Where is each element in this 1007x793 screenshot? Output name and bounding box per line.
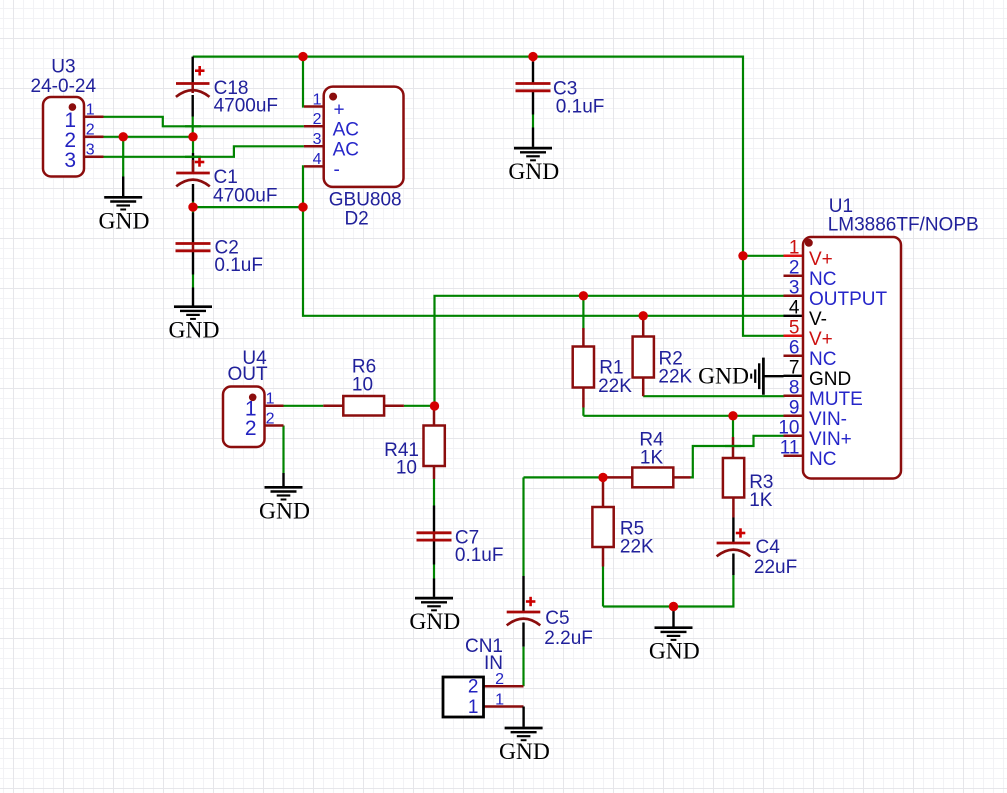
resistor R1 leads bbox=[582, 328, 585, 408]
svg-text:OUTPUT: OUTPUT bbox=[809, 289, 888, 310]
wire bottom ground rail bbox=[603, 575, 733, 607]
svg-text:22K: 22K bbox=[620, 537, 654, 558]
connector U4 pin numbers inside bbox=[245, 398, 257, 441]
junction on top rail at D2 riser bbox=[298, 52, 307, 61]
svg-text:3: 3 bbox=[789, 278, 800, 299]
connector U4 pin numbers outside bbox=[266, 391, 275, 428]
wire D2 pin4 minus down and V- row to U1 pin4 bbox=[303, 166, 785, 315]
svg-text:3: 3 bbox=[86, 142, 95, 159]
resistor R2 leads bbox=[642, 316, 645, 396]
resistor R41 leads bbox=[433, 406, 436, 479]
svg-text:3: 3 bbox=[313, 131, 322, 148]
svg-text:10: 10 bbox=[352, 375, 373, 396]
wire U3 pin2 to C18/C1 junction bbox=[104, 136, 194, 138]
junction C18 bottom / C1 top bbox=[188, 132, 197, 141]
svg-text:C4: C4 bbox=[756, 537, 781, 558]
svg-text:24-0-24: 24-0-24 bbox=[31, 76, 97, 97]
svg-text:V+: V+ bbox=[809, 249, 833, 270]
junction VIN- at R3 top bbox=[728, 411, 737, 420]
wire C1 top link bbox=[192, 137, 194, 153]
junction V+ at U1 pin1 bbox=[738, 251, 747, 260]
svg-text:2: 2 bbox=[789, 258, 800, 279]
svg-text:1: 1 bbox=[266, 391, 275, 408]
svg-text:VIN+: VIN+ bbox=[809, 429, 852, 450]
svg-text:4700uF: 4700uF bbox=[214, 96, 278, 117]
capacitor C5 plus sign bbox=[526, 597, 536, 606]
svg-text:GND: GND bbox=[409, 609, 460, 635]
svg-text:GND: GND bbox=[99, 208, 150, 234]
connector U3 pin numbers outside bbox=[86, 102, 95, 159]
svg-text:8: 8 bbox=[789, 378, 800, 399]
wire crossing over R3 lead bbox=[725, 445, 741, 447]
capacitor C7 plates bbox=[417, 533, 452, 540]
svg-text:GND: GND bbox=[809, 369, 851, 390]
resistor R4 body bbox=[632, 468, 673, 488]
wire C18 bottom link bbox=[192, 116, 194, 137]
wire VIN+ from U1 pin10 to R4 right bbox=[691, 436, 785, 478]
connector CN1 body bbox=[443, 677, 484, 717]
resistor R4 leads bbox=[604, 476, 691, 479]
svg-text:2: 2 bbox=[86, 122, 95, 139]
svg-text:GBU808: GBU808 bbox=[329, 190, 402, 211]
wire U4 pin1 to R6 left bbox=[284, 405, 324, 407]
junction U3 pin2 ground tap bbox=[119, 132, 128, 141]
wire R41 bottom link bbox=[433, 479, 435, 506]
wire R1 bottom link bbox=[582, 408, 584, 416]
bridge rectifier D2 pin1 mark bbox=[329, 93, 337, 101]
wire R6 right to OUTPUT node bbox=[404, 405, 435, 407]
svg-text:1: 1 bbox=[789, 238, 800, 259]
capacitor C5 leads bbox=[522, 576, 524, 647]
resistor R2 body bbox=[633, 337, 654, 378]
svg-text:U3: U3 bbox=[51, 56, 75, 77]
svg-text:C5: C5 bbox=[545, 608, 569, 629]
svg-text:V-: V- bbox=[809, 309, 827, 330]
IC U1 pin names bbox=[809, 249, 888, 470]
svg-text:GND: GND bbox=[649, 639, 700, 665]
svg-text:3: 3 bbox=[64, 149, 76, 172]
ground below CN1 bbox=[499, 707, 550, 766]
svg-text:1: 1 bbox=[468, 697, 479, 718]
wire U4 pin2 ground drop bbox=[282, 426, 284, 474]
bridge rectifier D2 pin stubs bbox=[304, 107, 324, 167]
svg-text:4: 4 bbox=[789, 298, 800, 319]
resistor R5 leads bbox=[602, 477, 605, 566]
svg-text:1K: 1K bbox=[749, 490, 773, 511]
connector U3 body bbox=[43, 97, 84, 177]
svg-text:22K: 22K bbox=[598, 376, 632, 397]
resistor R41 body bbox=[424, 426, 445, 467]
connector U3 pin stubs bbox=[84, 117, 104, 157]
svg-text:4: 4 bbox=[313, 151, 322, 168]
svg-text:GND: GND bbox=[499, 739, 550, 765]
junction R6/R41 output node bbox=[430, 401, 439, 410]
svg-text:2: 2 bbox=[245, 417, 257, 440]
bridge rectifier D2 body bbox=[324, 87, 404, 187]
svg-text:LM3886TF/NOPB: LM3886TF/NOPB bbox=[828, 215, 979, 236]
capacitor C18 plus sign bbox=[195, 66, 205, 76]
wire OUTPUT from U1 pin3 left and down to R6 node bbox=[435, 296, 785, 406]
wire R1 top link bbox=[582, 296, 584, 328]
ground below U4 bbox=[259, 473, 310, 524]
wire U3 pin3 to D2 pin3 bbox=[104, 146, 304, 157]
svg-text:0.1uF: 0.1uF bbox=[214, 255, 263, 276]
svg-text:NC: NC bbox=[809, 269, 836, 290]
ground below C3 bbox=[508, 128, 559, 186]
connector U3 pin1 mark bbox=[69, 103, 77, 111]
capacitor C18 plates bbox=[176, 84, 210, 97]
capacitor C3 leads bbox=[532, 57, 535, 115]
wire C3 bottom link bbox=[532, 115, 534, 128]
IC U1 pin numbers bbox=[778, 238, 800, 459]
svg-text:NC: NC bbox=[809, 349, 836, 370]
wire R3 top link from pin9 node bbox=[732, 416, 734, 437]
capacitor C5 plates bbox=[507, 612, 541, 625]
junction input node at R4/R5 bbox=[598, 473, 607, 482]
connector U4 pin1 mark bbox=[249, 394, 257, 402]
resistor R1 body bbox=[573, 347, 594, 388]
resistor R3 body bbox=[723, 458, 744, 498]
svg-text:GND: GND bbox=[508, 159, 559, 185]
ground below C7 bbox=[409, 579, 460, 636]
wire C5 bottom to CN1 pin2 bbox=[522, 647, 524, 687]
wire MUTE row from R2 bottom to U1 pin8 bbox=[643, 395, 784, 397]
svg-text:OUT: OUT bbox=[227, 364, 268, 385]
capacitor C2 leads bbox=[192, 213, 194, 275]
svg-text:-: - bbox=[334, 159, 340, 180]
svg-text:10: 10 bbox=[396, 458, 417, 479]
junction C1 bottom / C2 top bbox=[188, 202, 197, 211]
IC U1 body bbox=[803, 237, 901, 479]
wire D2 pin1 riser to top rail bbox=[302, 57, 305, 107]
svg-text:0.1uF: 0.1uF bbox=[556, 97, 605, 118]
svg-text:MUTE: MUTE bbox=[809, 389, 863, 410]
svg-text:D2: D2 bbox=[344, 208, 368, 229]
connector U4 pin stubs bbox=[265, 406, 284, 426]
svg-text:NC: NC bbox=[809, 449, 836, 470]
connector CN1 pin stubs bbox=[484, 686, 524, 706]
svg-text:22K: 22K bbox=[658, 367, 692, 388]
svg-text:GND: GND bbox=[169, 318, 220, 344]
svg-text:7: 7 bbox=[789, 358, 800, 379]
wire C2 bottom link bbox=[192, 275, 194, 288]
wire crossing over C1 lead bbox=[185, 156, 201, 158]
svg-text:10: 10 bbox=[778, 418, 799, 439]
wire C1 bottom short link bbox=[192, 202, 194, 208]
svg-text:22uF: 22uF bbox=[754, 557, 797, 578]
svg-text:V+: V+ bbox=[809, 329, 833, 350]
wire V+ branch to U1 pin1 bbox=[743, 255, 785, 257]
capacitor C2 plates bbox=[176, 244, 211, 251]
capacitor C1 plus sign bbox=[195, 157, 205, 166]
svg-text:AC: AC bbox=[333, 139, 359, 160]
svg-text:AC: AC bbox=[333, 119, 359, 140]
connector U4 body bbox=[223, 387, 265, 448]
svg-text:0.1uF: 0.1uF bbox=[455, 545, 504, 566]
ground below C2 bbox=[169, 288, 220, 344]
svg-text:VIN-: VIN- bbox=[809, 409, 847, 430]
capacitor C7 leads bbox=[433, 506, 435, 565]
junction on top rail at C3 bbox=[528, 52, 537, 61]
bridge rectifier D2 pin names bbox=[333, 100, 359, 181]
svg-text:2.2uF: 2.2uF bbox=[544, 628, 593, 649]
wire C7 bottom link bbox=[433, 565, 435, 579]
junction bottom rail ground tap bbox=[669, 602, 678, 611]
svg-text:GND: GND bbox=[259, 498, 310, 524]
junction bridge minus node bbox=[298, 202, 307, 211]
connector U3 pin numbers inside bbox=[64, 109, 76, 172]
svg-text:5: 5 bbox=[789, 318, 800, 339]
bridge rectifier D2 pin numbers bbox=[313, 91, 322, 168]
wire V+ top rail from C18 top to U1 pin5 bbox=[193, 57, 785, 336]
resistor R6 leads bbox=[323, 405, 404, 408]
wire R5 bottom link bbox=[602, 567, 604, 607]
resistor R6 body bbox=[343, 396, 384, 416]
resistor R5 body bbox=[592, 507, 613, 547]
capacitor C4 plates bbox=[717, 543, 751, 556]
IC U1 pin1 mark bbox=[805, 239, 813, 247]
junction OUTPUT at R1 top bbox=[579, 291, 588, 300]
svg-text:1: 1 bbox=[495, 691, 504, 708]
capacitor C18 leads bbox=[191, 57, 193, 117]
svg-text:1K: 1K bbox=[640, 447, 664, 468]
wire VIN- row from R1 bottom to U1 pin9 bbox=[583, 415, 784, 417]
wire U3 ground drop bbox=[122, 137, 124, 177]
connector CN1 pin numbers inside bbox=[468, 677, 479, 718]
svg-text:+: + bbox=[334, 100, 345, 121]
capacitor C3 plates bbox=[516, 84, 551, 91]
IC U1 pin stubs bbox=[784, 256, 804, 456]
svg-text:2: 2 bbox=[468, 677, 479, 698]
wire input node C5 to R4/R5 bbox=[524, 476, 605, 478]
svg-text:11: 11 bbox=[780, 438, 800, 459]
svg-text:4700uF: 4700uF bbox=[213, 185, 277, 206]
wire C2 top short link bbox=[192, 207, 194, 212]
capacitor C4 leads bbox=[732, 518, 734, 576]
capacitor C4 plus sign bbox=[736, 528, 746, 537]
svg-text:1: 1 bbox=[86, 102, 95, 119]
capacitor C1 leads bbox=[192, 153, 194, 202]
ground at bottom rail bbox=[649, 607, 700, 665]
wire C1 bottom to bridge minus bbox=[193, 206, 303, 208]
svg-text:GND: GND bbox=[698, 364, 749, 390]
ground below U3 bbox=[99, 177, 150, 235]
ground at U1 pin7 (pointing left) bbox=[698, 358, 783, 395]
resistor R3 leads bbox=[732, 437, 735, 518]
svg-text:2: 2 bbox=[313, 111, 322, 128]
svg-text:1: 1 bbox=[313, 91, 322, 108]
svg-text:2: 2 bbox=[266, 410, 275, 427]
svg-text:9: 9 bbox=[789, 398, 800, 419]
wire crossing over C18 lead bbox=[185, 125, 201, 127]
capacitor C1 plates bbox=[176, 173, 210, 186]
wire U3 pin1 to D2 pin2 bbox=[104, 117, 304, 127]
svg-text:IN: IN bbox=[484, 653, 503, 674]
wire C5 top link bbox=[522, 477, 524, 576]
junction V- at R2 top bbox=[639, 311, 648, 320]
svg-text:6: 6 bbox=[789, 338, 800, 359]
connector CN1 pin numbers outside bbox=[495, 671, 504, 708]
